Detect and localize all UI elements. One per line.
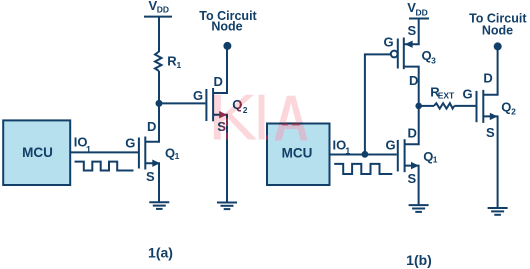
MCU U2 (right, 1b)	[267, 124, 330, 186]
wire REXT to Q2 gate (right)	[454, 105, 475, 107]
transistor Q1 (left) source arrow	[152, 160, 160, 167]
wire node to Q2 gate (left)	[159, 102, 205, 104]
wire tint where watermark K crosses Q2 source wire (left)	[226, 118, 228, 126]
ground under Q1 (right)	[409, 205, 429, 212]
pin label S of Q2 (left) maroon tint where watermark K stem crosses	[217, 119, 226, 134]
transistor Q1 (right) source lead	[405, 166, 419, 205]
waveform IO1 square wave (right)	[334, 164, 392, 174]
MCU U1 (left, 1a)	[3, 120, 70, 185]
transistor Q3 source lead from VDD	[404, 19, 419, 45]
node junction dot on IO1 (right)	[362, 151, 369, 158]
resistor REXT	[434, 103, 454, 108]
wire IO1: MCU to Q1 gate (right)	[330, 154, 397, 156]
transistor Q3 channel bar	[403, 38, 405, 70]
box border tint where watermark I serif crosses MCU box left edge (right)	[266, 135, 268, 139]
label Q2 (left) maroon tint where watermark K arm crosses	[232, 97, 242, 112]
transistor Q3 gate bar	[397, 39, 399, 69]
waveform IO1 square wave (left)	[75, 162, 134, 171]
transistor Q1 (right) source arrow	[411, 162, 419, 169]
svg-text:I: I	[256, 82, 267, 154]
ground under Q2 (left)	[217, 203, 237, 210]
transistor Q2 (right) channel bar	[482, 90, 484, 123]
transistor Q3 drain lead	[404, 67, 419, 106]
wire R1 to node (left)	[158, 71, 160, 103]
transistor Q1 (left) source lead	[145, 163, 159, 202]
label Q1 (right)	[423, 149, 438, 165]
transistor Q2 (left NMOS) gate bar	[205, 89, 207, 121]
box border tint where watermark A left leg crosses MCU box top (right)	[282, 124, 288, 126]
transistor Q2 (right NMOS) gate bar	[476, 91, 478, 122]
transistor Q2 (right) drain lead	[483, 47, 497, 95]
transistor Q1 (left NMOS) gate bar	[138, 138, 140, 169]
transistor Q1 (right) channel bar	[404, 139, 406, 172]
net label IO1 (left)	[74, 135, 91, 155]
ground under Q1 (left)	[149, 202, 169, 209]
resistor R1	[155, 52, 162, 72]
node To Circuit Node terminal (left)	[199, 9, 257, 50]
node junction dot REXT (right)	[415, 103, 422, 110]
transistor Q2 (left) drain lead	[213, 47, 227, 94]
transistor Q3 (PMOS) gate bubble	[391, 51, 398, 58]
label R1	[167, 53, 181, 70]
transistor Q2 (right) source arrow	[490, 113, 498, 120]
label Q2 (right)	[501, 100, 516, 117]
wire node down to Q1 drain (right)	[405, 106, 419, 144]
wire node down to Q1 drain (left)	[145, 103, 159, 141]
wire IO1 node up to Q3 gate bubble (right)	[365, 54, 391, 154]
box border tint where watermark A right leg crosses MCU box top (right)	[292, 124, 300, 126]
transistor Q1 (right NMOS) gate bar	[397, 140, 399, 172]
wire IO1: MCU to Q1 gate (left)	[70, 151, 138, 153]
label Q1 (left)	[165, 145, 180, 161]
net label IO1 (right)	[333, 137, 351, 155]
label Q2 (left)	[232, 97, 247, 115]
transistor Q2 (left) channel bar	[212, 88, 214, 121]
svg-text:A: A	[273, 83, 309, 155]
power VDD (right)	[407, 0, 429, 19]
node junction dot (left)	[156, 100, 163, 107]
ground under Q2 (right)	[488, 208, 508, 215]
wire node to REXT	[419, 105, 434, 107]
transistor Q3 source arrow (points left)	[405, 41, 413, 48]
node To Circuit Node terminal (right)	[469, 11, 527, 50]
wire VDD to R1 (left)	[158, 17, 160, 52]
power VDD (left)	[144, 0, 172, 17]
label Q3	[422, 48, 437, 66]
transistor Q1 (left) channel bar	[144, 137, 146, 170]
label REXT	[430, 84, 455, 100]
transistor Q2 (right) source lead	[483, 116, 497, 207]
transistor Q2 (left) source lead	[213, 115, 227, 203]
svg-text:K: K	[208, 81, 258, 153]
transistor Q2 (left) source arrow (maroon under watermark)	[219, 111, 227, 118]
